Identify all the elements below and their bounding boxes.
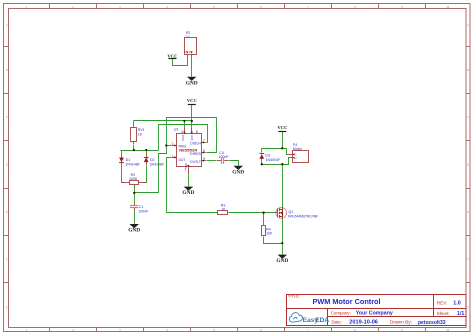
svg-text:D2: D2 [150,158,155,162]
svg-text:6: 6 [203,149,205,153]
svg-text:GND: GND [276,258,288,264]
svg-text:Drawn By:: Drawn By: [390,320,412,326]
svg-text:VCC: VCC [167,54,177,59]
svg-text:3: 3 [172,155,174,159]
svg-text:1x2: 1x2 [186,35,191,38]
svg-text:VCC: VCC [190,134,194,141]
svg-text:REV:: REV: [437,300,447,305]
svg-text:4: 4 [181,130,183,134]
svg-text:TITLE:: TITLE: [288,293,300,298]
svg-text:U1: U1 [174,127,179,131]
svg-text:1: 1 [184,168,186,172]
svg-text:Company:: Company: [331,310,351,315]
svg-text:D3: D3 [265,154,270,158]
svg-text:THRES: THRES [189,152,201,156]
svg-text:TRIG: TRIG [178,144,186,148]
svg-text:1K: 1K [138,132,143,136]
svg-text:OUT: OUT [178,158,185,162]
svg-text:Date:: Date: [332,320,343,325]
svg-text:8: 8 [196,130,198,134]
svg-text:D1: D1 [126,158,131,162]
svg-text:GND: GND [128,228,140,234]
svg-text:VCC: VCC [187,98,197,103]
svg-text:Sheet:: Sheet: [437,311,450,316]
svg-text:RV1: RV1 [138,128,145,132]
svg-text:7: 7 [203,139,205,143]
svg-text:DISCH: DISCH [190,141,201,145]
svg-text:R3: R3 [221,204,226,208]
svg-text:EDA: EDA [315,317,329,324]
svg-text:RST: RST [181,134,185,140]
svg-text:Q1: Q1 [289,210,294,214]
svg-text:2: 2 [172,142,174,146]
svg-text:Motor: Motor [293,147,303,151]
svg-text:R2: R2 [131,173,136,177]
svg-text:1N4148F: 1N4148F [125,163,139,167]
svg-text:VCC: VCC [277,125,287,130]
svg-text:C1: C1 [139,205,144,209]
svg-text:P4: P4 [293,143,297,147]
svg-text:1N4004F: 1N4004F [266,158,280,162]
svg-text:petozsolt33: petozsolt33 [418,320,446,326]
svg-text:PWM Motor Control: PWM Motor Control [312,297,380,306]
svg-text:GND: GND [232,169,244,175]
svg-text:1.0: 1.0 [453,301,461,307]
svg-text:10K: 10K [266,232,273,236]
svg-text:P2: P2 [186,31,191,35]
svg-text:Your Company: Your Company [356,310,393,316]
svg-text:R4: R4 [266,228,271,232]
svg-text:5: 5 [203,157,205,161]
svg-text:1N4148F: 1N4148F [150,163,164,167]
svg-text:GND: GND [182,190,194,196]
svg-text:2019-10-06: 2019-10-06 [349,320,378,326]
svg-text:1K: 1K [221,207,226,211]
svg-text:GND: GND [186,80,198,86]
svg-text:100nF: 100nF [138,209,148,213]
svg-text:100K: 100K [129,177,138,181]
svg-text:IRFZ44NSTRLPBF: IRFZ44NSTRLPBF [288,214,318,218]
svg-text:1/1: 1/1 [457,311,464,317]
svg-text:100nF: 100nF [219,155,229,159]
svg-text:CVOLT: CVOLT [190,160,201,164]
